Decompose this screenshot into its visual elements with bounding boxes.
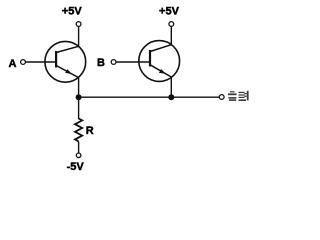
transistor Q2 [139,41,180,82]
transistor Q1 [45,41,86,82]
terminal +5V left [76,22,81,27]
wire emitter Q1 to rail [78,78,80,98]
terminal +5V right [169,22,174,27]
wire collector Q1 to +5V [78,26,80,46]
svg-text:R: R [86,125,94,137]
wire base Q2 [116,61,150,63]
node junction left [76,94,82,100]
label output (Korean 출력, drawn) [228,91,249,101]
terminal A [21,60,26,65]
resistor R [75,119,82,142]
wire rail to output [79,96,220,98]
svg-text:+5V: +5V [62,6,83,18]
svg-text:+5V: +5V [159,6,180,18]
svg-text:-5V: -5V [67,161,85,173]
wire emitter Q2 to rail [170,77,172,97]
terminal B [111,60,116,65]
svg-text:B: B [97,57,105,69]
wire resistor to -5V [78,142,80,154]
wire collector Q2 to +5V [170,26,172,44]
wire junction to resistor [78,97,80,119]
node junction right [168,94,174,100]
terminal output [219,95,224,100]
wire base Q1 [25,61,55,63]
terminal -5V [76,153,81,158]
svg-text:A: A [9,58,17,70]
